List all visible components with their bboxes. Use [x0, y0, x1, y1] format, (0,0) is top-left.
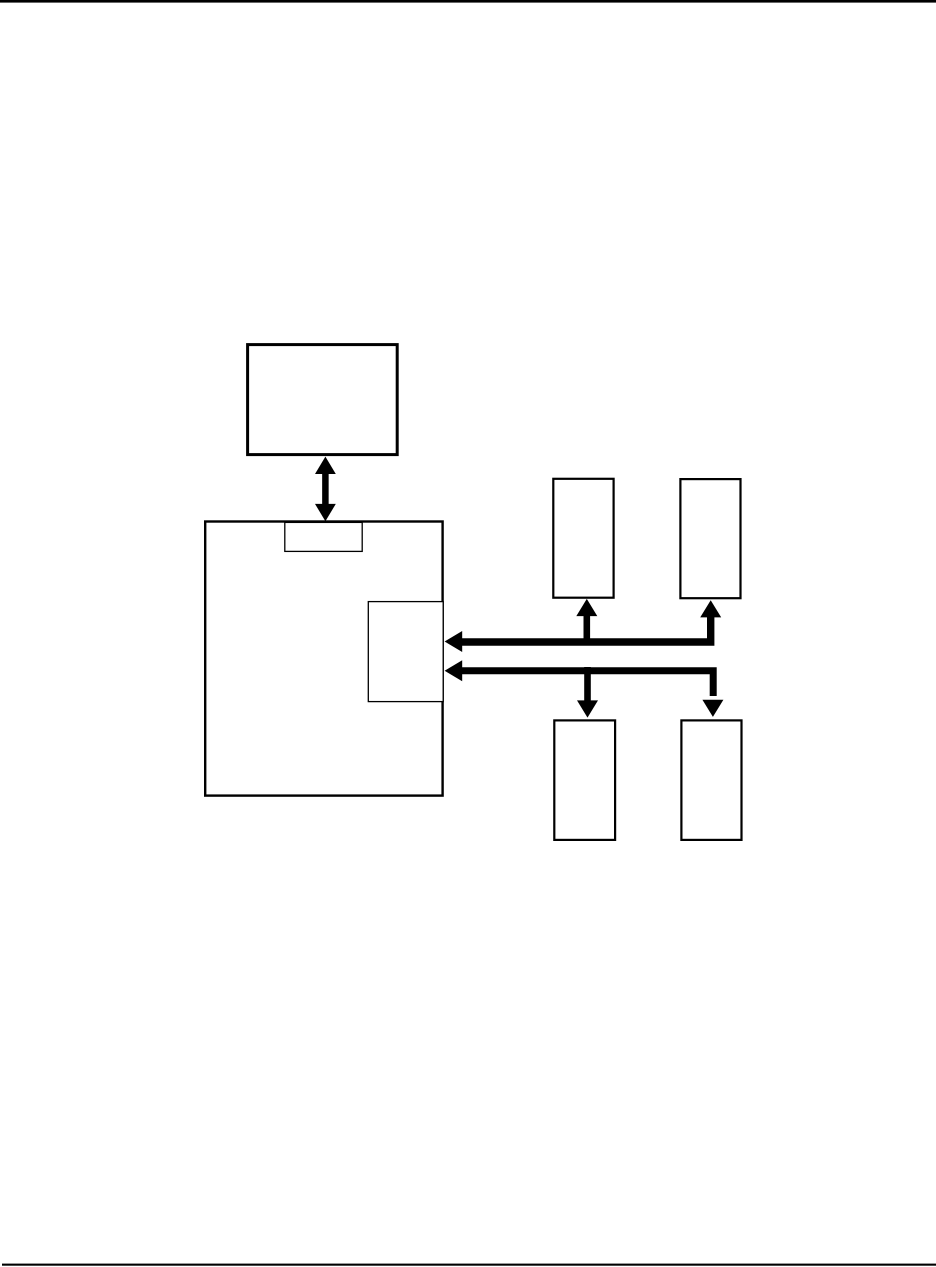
wire: lower bus branch down into lower-left peripheral: [577, 667, 598, 718]
block: interface sub-box inside main box right: [368, 602, 443, 702]
block: peripheral box lower-left: [554, 720, 615, 840]
wire: upper bus branch up into upper-left peripheral: [576, 599, 597, 645]
block: main controller box: [205, 522, 442, 796]
wire: lower bus from main box to peripherals (left arrowhead): [445, 660, 714, 696]
block: connector sub-box inside main box top: [285, 522, 362, 551]
block: top unit box: [248, 345, 398, 455]
wire: upper bus from peripherals to main box (left arrowhead): [445, 617, 711, 653]
page footer rule: [2, 1264, 936, 1266]
block: peripheral box lower-right: [681, 720, 741, 840]
block: peripheral box upper-right: [680, 479, 740, 598]
wire: upper bus corner arrowhead into upper-right peripheral: [700, 600, 721, 617]
block: peripheral box upper-left: [553, 479, 613, 598]
page header rule: [0, 0, 936, 3]
wire: lower bus corner arrowhead into lower-right peripheral: [702, 700, 723, 717]
wire: vertical double-headed arrow between top unit and main box: [315, 457, 336, 522]
